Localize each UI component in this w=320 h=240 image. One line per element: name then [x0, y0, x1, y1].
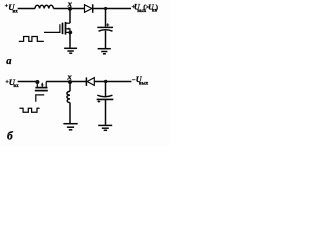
- source stub: [36, 82, 38, 88]
- wire input to T2: [18, 81, 38, 83]
- diode D1: [85, 5, 92, 13]
- ground G4 (under C2): [98, 125, 112, 130]
- svg-text:x: x: [66, 72, 72, 82]
- capacitor C1 (polarized): [97, 23, 113, 31]
- svg-text:вх: вх: [13, 84, 19, 89]
- wire C1 to ground: [105, 31, 107, 48]
- label +Uvx (bottom input): [5, 77, 19, 89]
- body stub with up arrow: [41, 83, 43, 87]
- inductor L2 (vertical, humps left): [67, 91, 70, 102]
- node x (top): [68, 7, 72, 11]
- wire diode to output: [93, 8, 131, 10]
- rail T2 to node x (bottom): [46, 81, 86, 83]
- wire C2 to ground: [105, 99, 107, 124]
- inductor L1: [35, 5, 53, 8]
- transistor T1 (n-MOSFET): [44, 22, 72, 35]
- svg-text:x: x: [67, 0, 73, 8]
- node (bottom output junction): [104, 80, 107, 83]
- label -Uvyh: [132, 75, 149, 87]
- wire input to inductor: [18, 8, 35, 10]
- gate lead: [36, 95, 44, 102]
- wire inductor to diode: [53, 8, 84, 10]
- transistor T2 (p-MOSFET, horizontal): [35, 80, 48, 102]
- source/body dot: [35, 80, 39, 84]
- gate pulse waveform W2 (negative pulses): [19, 108, 39, 112]
- gate pulse waveform W1 (positive pulses): [19, 37, 44, 42]
- gate lead: [44, 24, 60, 32]
- capacitor C2 (polarized): [97, 95, 114, 103]
- source wire down to ground: [69, 32, 71, 47]
- wire L2 to ground: [69, 103, 71, 123]
- source/body dot: [68, 31, 72, 35]
- wire D2 to output: [94, 81, 131, 83]
- body stub with arrow: [66, 29, 71, 33]
- gate plate: [35, 90, 48, 92]
- drain stub: [66, 22, 71, 24]
- source stub: [66, 31, 71, 33]
- capacitor C1 wire from node: [105, 9, 107, 27]
- inductor L2 wire from node: [69, 82, 71, 91]
- capacitor C2 wire from node: [105, 82, 107, 98]
- drain stub: [45, 82, 47, 88]
- svg-text:): ): [156, 4, 159, 12]
- drain wire up to node x: [69, 9, 71, 24]
- gate plate: [62, 23, 64, 34]
- node (top output junction): [104, 7, 107, 10]
- svg-text:б: б: [7, 130, 14, 142]
- label +Uvyh (>Uvx): [132, 2, 159, 14]
- svg-text:а: а: [6, 56, 11, 67]
- channel: [65, 22, 67, 35]
- svg-text:вх: вх: [13, 10, 19, 15]
- ground G3 (under L2): [63, 124, 77, 130]
- svg-text:вых: вых: [139, 82, 149, 87]
- diode D2 (pointing left): [85, 77, 87, 86]
- ground G1 (under T1): [64, 48, 77, 53]
- node x (bottom): [68, 80, 72, 84]
- ground G2 (under C1): [98, 49, 111, 54]
- label +Uvx (top input): [5, 2, 19, 15]
- channel: [35, 87, 47, 89]
